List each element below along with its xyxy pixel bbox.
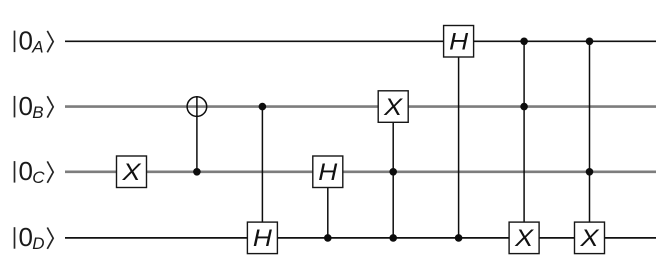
control dot on qubit C col8 bbox=[586, 168, 594, 176]
control dot on qubit D col5 bbox=[389, 234, 397, 242]
label ket |0_C> bbox=[15, 156, 54, 187]
svg-text:X: X bbox=[579, 225, 599, 252]
wire connector col8 CCX bbox=[589, 41, 591, 238]
wire qubit D bbox=[65, 237, 656, 239]
gate H on qubit D col3 bbox=[247, 222, 277, 254]
svg-text:H: H bbox=[449, 29, 469, 56]
svg-text:X: X bbox=[121, 159, 141, 186]
wire connector col5 CCX bbox=[392, 107, 394, 238]
CNOT target on qubit B col2 bbox=[187, 97, 207, 117]
svg-text:A: A bbox=[31, 38, 43, 57]
control dot on qubit D col4 bbox=[324, 234, 332, 242]
wire connector col2 CX bbox=[196, 96, 198, 172]
wire connector col7 CCX bbox=[523, 41, 525, 238]
label ket |0_A> bbox=[15, 26, 54, 57]
wire qubit B bbox=[65, 105, 656, 108]
svg-text:H: H bbox=[253, 225, 273, 252]
gate X on qubit B col5 bbox=[378, 91, 408, 123]
svg-text:D: D bbox=[32, 234, 44, 253]
gate H on qubit A col6 bbox=[444, 26, 474, 58]
wire connector col6 CH bbox=[458, 41, 460, 238]
control dot on qubit B col7 bbox=[520, 103, 528, 111]
svg-text:H: H bbox=[318, 159, 338, 186]
control dot on qubit B col3 bbox=[259, 103, 267, 111]
control dot on qubit C col2 bbox=[193, 168, 201, 176]
label ket |0_B> bbox=[15, 91, 54, 122]
gate X on qubit C col1 bbox=[117, 156, 147, 188]
gate X on qubit D col7 bbox=[509, 222, 539, 254]
control dot on qubit A col8 bbox=[586, 38, 594, 46]
control dot on qubit C col5 bbox=[389, 168, 397, 176]
svg-text:0: 0 bbox=[19, 91, 33, 121]
wire qubit A bbox=[65, 40, 656, 42]
wire connector col4 CH bbox=[327, 172, 329, 238]
gate X on qubit D col8 bbox=[575, 222, 605, 254]
label ket |0_D> bbox=[15, 222, 54, 253]
svg-text:X: X bbox=[383, 94, 403, 121]
svg-text:X: X bbox=[514, 225, 534, 252]
svg-text:0: 0 bbox=[19, 222, 33, 252]
svg-text:0: 0 bbox=[19, 156, 33, 186]
wire qubit C bbox=[65, 171, 656, 174]
gate H on qubit C col4 bbox=[313, 156, 343, 188]
control dot on qubit A col7 bbox=[520, 38, 528, 46]
wire connector col3 CH bbox=[261, 107, 263, 238]
svg-text:C: C bbox=[32, 168, 45, 187]
svg-text:B: B bbox=[32, 103, 43, 122]
control dot on qubit D col6 bbox=[455, 234, 463, 242]
svg-text:0: 0 bbox=[19, 26, 33, 56]
